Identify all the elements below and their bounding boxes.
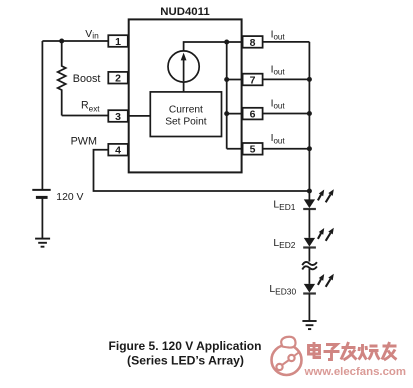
label Vin — [85, 29, 99, 41]
watermark chinese text shao — [359, 344, 380, 360]
svg-text:(Series LED’s Array): (Series LED’s Array) — [127, 353, 244, 367]
svg-text:120 V: 120 V — [56, 192, 83, 203]
svg-text:5: 5 — [250, 144, 256, 156]
svg-text:Iout: Iout — [271, 133, 286, 145]
node bus pin6 — [307, 111, 312, 116]
svg-text:NUD4011: NUD4011 — [160, 6, 210, 18]
svg-text:8: 8 — [250, 37, 256, 49]
node PWM line to LED string — [307, 189, 312, 194]
ground battery — [35, 239, 50, 247]
wire pin 7 to LED bus — [263, 78, 310, 80]
svg-text:LED2: LED2 — [273, 238, 295, 250]
node bus-pin6 junction — [224, 111, 229, 116]
resistor Boost (Rext) zigzag — [58, 41, 66, 116]
pin 6 — [243, 108, 263, 121]
pin 3 — [108, 110, 128, 123]
svg-text:www.elecfans.com: www.elecfans.com — [304, 366, 407, 378]
svg-text:Iout: Iout — [271, 99, 286, 111]
pin 7 — [243, 74, 263, 87]
svg-text:6: 6 — [250, 109, 256, 121]
node bus-pin8 junction — [224, 40, 229, 45]
watermark url text — [304, 366, 407, 378]
node bus pin5 — [307, 146, 312, 151]
current source CS1 circle with up arrow — [168, 51, 199, 82]
wire LED bus vertical — [308, 42, 310, 200]
wire resistor to pin 3 — [62, 115, 109, 117]
label Rext — [81, 100, 100, 114]
svg-text:Rext: Rext — [81, 100, 100, 114]
node bus-pin7 junction — [224, 77, 229, 82]
node Vin-resistor junction — [59, 39, 64, 44]
wire Vin supply to pin 1 — [42, 40, 108, 42]
wire current source top to internal bus and pin 8 — [184, 42, 243, 51]
svg-text:7: 7 — [250, 74, 256, 86]
pin 8 — [243, 36, 263, 49]
svg-text:Iout: Iout — [271, 29, 286, 41]
caption figure title — [109, 339, 262, 368]
wire LED30 to ground — [308, 294, 310, 321]
svg-text:Current: Current — [169, 104, 203, 115]
label Iout pin 5 — [271, 133, 286, 145]
battery V1 plates — [32, 190, 50, 198]
watermark chinese text fa — [341, 342, 357, 360]
Current Set Point box — [150, 92, 221, 137]
svg-text:2: 2 — [115, 73, 121, 85]
label PWM — [71, 135, 97, 147]
wire PWM pin 4 down and right to LED string — [94, 150, 310, 191]
svg-text:Set Point: Set Point — [165, 117, 207, 128]
label LED2 — [273, 238, 295, 250]
label Iout pin 7 — [271, 64, 286, 76]
label LED1 — [273, 200, 295, 212]
svg-text:Iout: Iout — [271, 64, 286, 76]
svg-text:LED1: LED1 — [273, 200, 295, 212]
watermark chinese text dian — [309, 342, 322, 358]
svg-text:4: 4 — [115, 145, 121, 157]
wire pin 5 to LED bus — [263, 148, 310, 150]
node bus pin7 — [307, 77, 312, 82]
watermark chinese text zi — [324, 345, 340, 360]
label Boost — [73, 73, 101, 85]
LED D2 — [303, 228, 334, 248]
wire current source bottom to set point box — [183, 82, 185, 92]
svg-text:Vin: Vin — [85, 29, 99, 41]
svg-text:1: 1 — [115, 36, 121, 48]
pin 5 — [243, 143, 263, 156]
label Iout pin 6 — [271, 99, 286, 111]
ground LED string — [302, 321, 316, 329]
pin 1 — [108, 35, 128, 48]
battery V1 negative lead — [41, 199, 43, 239]
svg-text:PWM: PWM — [71, 135, 97, 147]
label 120 V — [56, 192, 83, 203]
wire LED1 to LED2 — [308, 209, 310, 238]
svg-text:LED30: LED30 — [269, 284, 296, 296]
wire pin 8 to LED bus — [263, 41, 310, 43]
watermark chinese text you — [382, 342, 397, 360]
svg-text:Figure 5. 120 V Application: Figure 5. 120 V Application — [109, 339, 262, 353]
pin 2 — [108, 72, 128, 85]
svg-text:3: 3 — [115, 111, 121, 123]
svg-text:Boost: Boost — [73, 73, 101, 85]
wire pin 3 to set point box — [128, 115, 151, 117]
pin 4 — [108, 144, 128, 157]
label LED30 — [269, 284, 296, 296]
wire LED2 to break — [308, 248, 310, 284]
wire bus to pin 6 — [227, 113, 243, 115]
label NUD4011 — [160, 6, 210, 18]
break squiggle in LED string — [301, 262, 319, 270]
battery V1 120V positive lead — [41, 41, 43, 189]
LED D30 — [303, 274, 334, 294]
wire internal bus vertical — [226, 42, 228, 149]
op-amp U1 NUD4011 IC outline — [129, 19, 242, 172]
LED D1 — [303, 189, 334, 209]
wire pin 6 to LED bus — [263, 113, 310, 115]
label Iout pin 8 — [271, 29, 286, 41]
watermark elecfans logo — [272, 337, 302, 375]
wire bus to pin 7 — [227, 79, 243, 81]
wire bus to pin 5 — [227, 148, 243, 150]
